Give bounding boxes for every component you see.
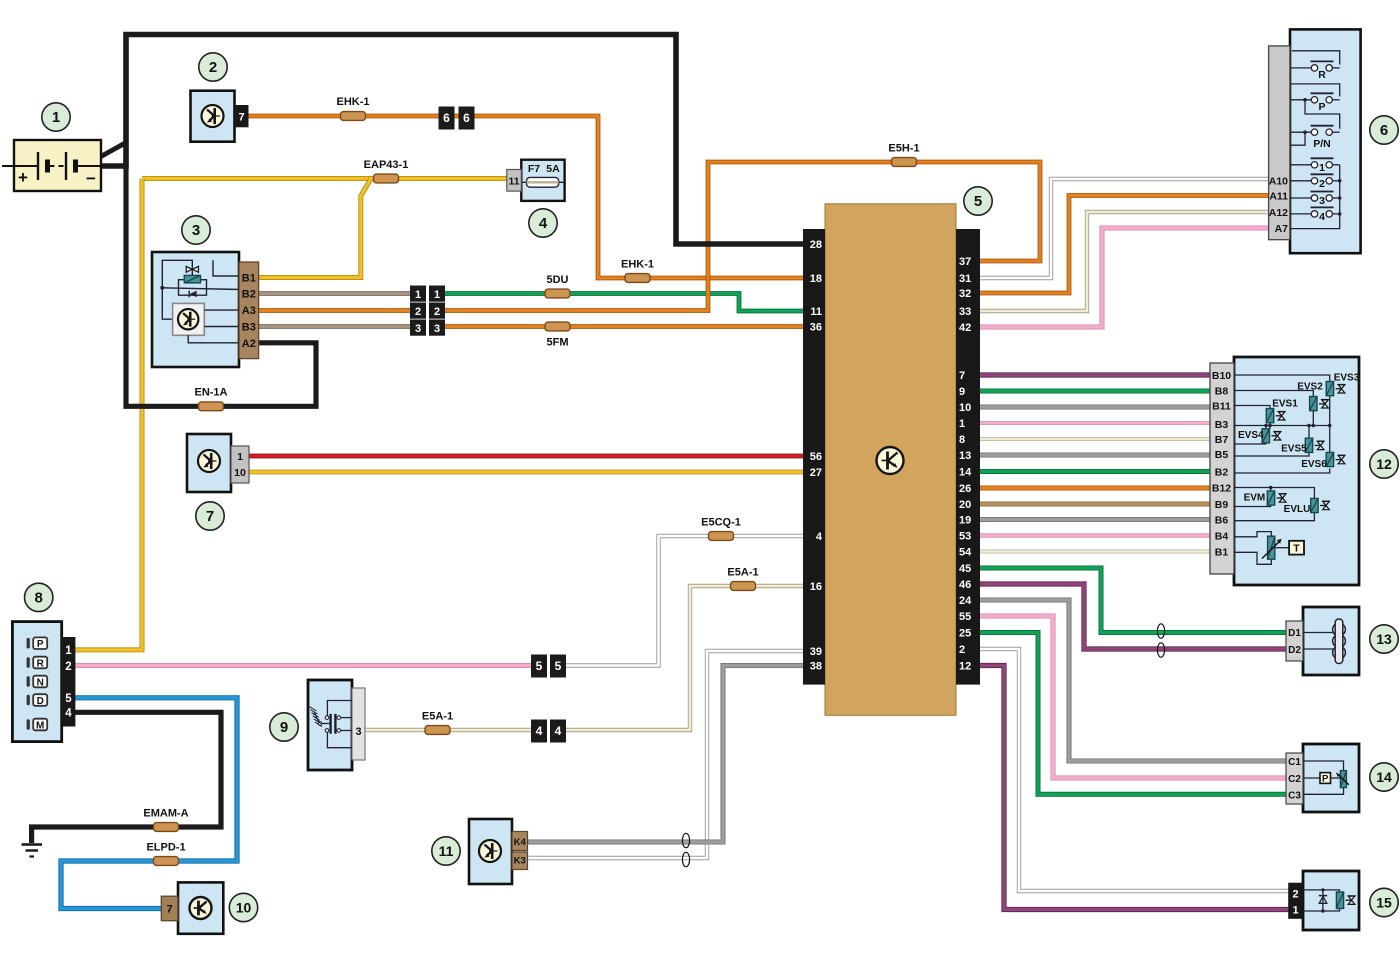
svg-text:53: 53 bbox=[959, 531, 971, 543]
svg-text:B8: B8 bbox=[1215, 386, 1229, 398]
svg-text:25: 25 bbox=[959, 628, 971, 640]
battery G1 body bbox=[14, 140, 101, 191]
svg-text:1: 1 bbox=[237, 451, 243, 463]
junction 5-5 right bbox=[550, 655, 566, 678]
label E5A-1 a bbox=[727, 567, 758, 579]
svg-text:1: 1 bbox=[52, 109, 60, 126]
svg-text:7: 7 bbox=[167, 904, 173, 916]
pressure switch 9 contact mechanism bbox=[322, 701, 353, 748]
fuse 4 element bbox=[521, 177, 564, 187]
svg-text:5A: 5A bbox=[546, 163, 560, 175]
output shaft sensor 13 body bbox=[1303, 607, 1359, 675]
svg-text:M: M bbox=[36, 721, 44, 732]
wire ELPD-1 blue selector pin5 to sensor10 bbox=[61, 698, 237, 909]
twisted pair mark near sensor 11 bbox=[682, 833, 689, 866]
svg-text:A3: A3 bbox=[242, 305, 256, 317]
svg-text:10: 10 bbox=[234, 467, 246, 479]
svg-text:11: 11 bbox=[508, 176, 519, 188]
svg-text:2: 2 bbox=[1319, 178, 1325, 190]
connector 5FM bbox=[545, 322, 570, 331]
node label 7 bbox=[196, 502, 224, 530]
solenoid EVS2 bbox=[1310, 397, 1329, 411]
svg-text:36: 36 bbox=[810, 322, 822, 334]
svg-text:1: 1 bbox=[1292, 905, 1298, 917]
svg-text:10: 10 bbox=[959, 402, 971, 414]
svg-text:4: 4 bbox=[539, 215, 548, 232]
node label 11 bbox=[432, 837, 460, 865]
relay 15 diode bbox=[1319, 888, 1327, 913]
sensor 7 symbol bbox=[198, 450, 220, 472]
svg-text:3: 3 bbox=[355, 726, 361, 738]
svg-text:15: 15 bbox=[1376, 895, 1392, 911]
wire battery diagonal bbox=[100, 142, 127, 157]
svg-text:2: 2 bbox=[434, 306, 440, 318]
svg-text:18: 18 bbox=[810, 273, 822, 285]
wire battery positive rail top bbox=[101, 35, 805, 245]
solenoid EVS3 bbox=[1326, 382, 1345, 396]
svg-text:5DU: 5DU bbox=[546, 274, 568, 286]
wire red sensor7 to ECU pin 56 bbox=[249, 454, 805, 459]
svg-text:B7: B7 bbox=[1215, 434, 1229, 446]
svg-text:−: − bbox=[86, 169, 96, 188]
connector E5A-1 a bbox=[731, 582, 756, 591]
svg-text:55: 55 bbox=[959, 611, 971, 623]
svg-text:46: 46 bbox=[959, 579, 971, 591]
solenoid unit 12 labels bbox=[1238, 373, 1360, 516]
svg-text:EN-1A: EN-1A bbox=[194, 387, 227, 399]
svg-text:13: 13 bbox=[1376, 631, 1392, 647]
svg-text:EVS1: EVS1 bbox=[1272, 399, 1298, 410]
node label 4 bbox=[529, 209, 557, 237]
actuator 3 motor leads bbox=[188, 310, 240, 343]
diag connector 10 body bbox=[178, 882, 223, 933]
thermistor in unit 12 bbox=[1262, 536, 1282, 559]
svg-text:7: 7 bbox=[206, 508, 214, 525]
label 5DU bbox=[546, 274, 568, 286]
svg-text:B12: B12 bbox=[1212, 483, 1231, 495]
wire gray ECU10 to B11 bbox=[978, 405, 1212, 410]
svg-text:5: 5 bbox=[536, 659, 543, 673]
svg-text:T: T bbox=[1293, 543, 1300, 555]
svg-text:B4: B4 bbox=[1215, 531, 1229, 543]
label 5FM bbox=[547, 337, 569, 349]
svg-text:E5A-1: E5A-1 bbox=[422, 711, 453, 723]
svg-text:24: 24 bbox=[959, 595, 972, 607]
svg-text:E5A-1: E5A-1 bbox=[727, 567, 758, 579]
svg-text:16: 16 bbox=[810, 581, 822, 593]
selector switch 6 contacts bbox=[1311, 61, 1334, 217]
wire yellow sensor7 to ECU pin 27 bbox=[249, 470, 805, 475]
svg-text:12: 12 bbox=[1376, 456, 1392, 472]
svg-text:28: 28 bbox=[810, 239, 822, 251]
solenoid unit 12 body bbox=[1234, 357, 1359, 585]
diag connector 10 pin 7 bbox=[161, 896, 178, 921]
node label 1 bbox=[42, 103, 70, 131]
svg-text:37: 37 bbox=[959, 256, 971, 268]
svg-text:1: 1 bbox=[434, 289, 440, 301]
svg-text:P/N: P/N bbox=[1313, 138, 1331, 150]
wire pink ECU53 to B4 bbox=[978, 533, 1212, 537]
svg-text:A10: A10 bbox=[1269, 176, 1288, 188]
ECU 5 left pin numbers bbox=[810, 239, 823, 673]
svg-text:6: 6 bbox=[463, 111, 470, 125]
sensor 14 internal wiring bbox=[1303, 761, 1344, 794]
svg-text:EVS6: EVS6 bbox=[1301, 459, 1327, 470]
svg-text:14: 14 bbox=[1376, 769, 1392, 785]
svg-text:EHK-1: EHK-1 bbox=[621, 259, 654, 271]
wire pink selector pin2 to junction 5 bbox=[73, 663, 533, 668]
wire pink ECU55 to C2 bbox=[978, 616, 1288, 778]
svg-text:7: 7 bbox=[959, 370, 965, 382]
label ELPD-1 bbox=[146, 842, 185, 854]
wire 5DU green junction to ECU pin 11 bbox=[443, 294, 805, 312]
svg-text:R: R bbox=[37, 659, 45, 670]
node label 5 bbox=[964, 187, 992, 215]
diag connector 10 K symbol bbox=[190, 897, 212, 919]
svg-text:E5CQ-1: E5CQ-1 bbox=[701, 517, 741, 529]
selector switch 6 junction dots bbox=[1303, 98, 1341, 216]
sensor 13 connector strip bbox=[1286, 621, 1303, 661]
wire purple ECU46 to D2 bbox=[978, 584, 1288, 649]
svg-text:1: 1 bbox=[1319, 162, 1325, 174]
battery G1 symbol bbox=[2, 152, 101, 188]
wire white ECU2 to relay pin2 bbox=[978, 649, 1290, 891]
svg-text:13: 13 bbox=[959, 450, 971, 462]
pressure switch 9 spring hatch bbox=[309, 707, 322, 727]
svg-text:E5H-1: E5H-1 bbox=[888, 143, 919, 155]
wire cream ECU54 to B1 bbox=[978, 550, 1212, 554]
wire B3 taupe to junction bbox=[256, 324, 412, 329]
label E5H-1 bbox=[888, 143, 919, 155]
svg-text:5: 5 bbox=[65, 693, 72, 705]
label EN-1A bbox=[194, 387, 227, 399]
svg-text:2: 2 bbox=[415, 306, 421, 318]
svg-text:B5: B5 bbox=[1215, 449, 1229, 461]
svg-text:45: 45 bbox=[959, 563, 971, 575]
label E5A-1 b bbox=[422, 711, 453, 723]
label EAP43-1 bbox=[364, 159, 409, 171]
connector E5A-1 b bbox=[425, 726, 450, 735]
svg-text:P: P bbox=[1318, 101, 1325, 113]
solenoid unit 12 junction dots bbox=[1264, 424, 1331, 490]
svg-text:C1: C1 bbox=[1288, 757, 1301, 768]
svg-text:9: 9 bbox=[280, 719, 288, 736]
sensor 14 element bbox=[1336, 771, 1349, 788]
sensor 7 pins 1 and 10 bbox=[231, 446, 249, 483]
speed sensor 11 pins K4 K3 bbox=[512, 832, 528, 870]
svg-text:1: 1 bbox=[415, 289, 421, 301]
selector indicator 8 position symbols P R N D M bbox=[27, 637, 48, 731]
solenoid EVLU bbox=[1311, 498, 1330, 512]
wire purple ECU12 to relay pin1 bbox=[978, 666, 1290, 910]
svg-text:6: 6 bbox=[1380, 122, 1388, 139]
wire B2 taupe to junction bbox=[256, 291, 412, 296]
svg-text:B3: B3 bbox=[242, 322, 256, 334]
node label 6 bbox=[1370, 116, 1398, 144]
wire E5A-1 cream switch9 to junction 4 bbox=[364, 728, 533, 732]
svg-text:EAP43-1: EAP43-1 bbox=[364, 159, 409, 171]
svg-text:K3: K3 bbox=[514, 856, 526, 867]
relay 15 solenoid bbox=[1336, 892, 1355, 909]
node label 14 bbox=[1370, 763, 1398, 791]
svg-text:5: 5 bbox=[974, 193, 982, 210]
svg-text:56: 56 bbox=[810, 451, 822, 463]
svg-text:F7: F7 bbox=[528, 163, 540, 175]
svg-text:3: 3 bbox=[415, 323, 421, 335]
sensor 7 body bbox=[187, 434, 231, 492]
pressure switch 9 body bbox=[308, 680, 352, 770]
actuator 3 motor box bbox=[173, 303, 205, 335]
svg-text:+: + bbox=[18, 168, 28, 187]
svg-text:32: 32 bbox=[959, 288, 971, 300]
wire tan ECU20 to B9 bbox=[978, 502, 1212, 507]
wire purple ECU7 to B10 bbox=[978, 372, 1212, 377]
wire cream ECU8 to B7 bbox=[978, 437, 1212, 441]
svg-text:K4: K4 bbox=[514, 837, 527, 848]
svg-text:11: 11 bbox=[439, 843, 454, 859]
solenoid EVS4 bbox=[1262, 429, 1281, 443]
svg-text:2: 2 bbox=[65, 661, 71, 673]
wire orange ECU32 to A11 bbox=[978, 196, 1270, 294]
svg-text:20: 20 bbox=[959, 499, 971, 511]
svg-text:9: 9 bbox=[959, 386, 965, 398]
svg-text:ELPD-1: ELPD-1 bbox=[146, 842, 185, 854]
selector switch 6 connector strip bbox=[1269, 46, 1290, 240]
wire gray K4 to ECU pin 38 bbox=[526, 666, 805, 843]
svg-text:6: 6 bbox=[443, 111, 450, 125]
node label 10 bbox=[229, 893, 257, 921]
selector indicator 8 pin column bbox=[62, 637, 76, 727]
svg-text:1: 1 bbox=[65, 645, 72, 657]
svg-text:A2: A2 bbox=[242, 338, 256, 350]
solenoid unit 12 internal wiring bbox=[1234, 375, 1330, 564]
svg-text:B1: B1 bbox=[242, 273, 256, 285]
wire green ECU14 to B2 bbox=[978, 469, 1212, 474]
solenoid EVM bbox=[1267, 491, 1286, 505]
temperature sensor T box bbox=[1289, 541, 1304, 555]
fuse 4 body bbox=[521, 160, 564, 201]
wire E5CQ-1 white junction5 to ECU pin 4 bbox=[564, 536, 805, 666]
svg-text:D2: D2 bbox=[1288, 645, 1301, 656]
svg-text:4: 4 bbox=[816, 531, 823, 543]
junction 4-4 left bbox=[531, 720, 547, 743]
wire gray ECU24 to C1 bbox=[978, 600, 1288, 761]
label EHK-1 a bbox=[336, 96, 369, 108]
actuator 3 body bbox=[152, 252, 239, 367]
svg-text:B2: B2 bbox=[1215, 467, 1229, 479]
svg-text:19: 19 bbox=[959, 515, 971, 527]
svg-text:4: 4 bbox=[555, 724, 562, 738]
solenoid unit 12 connector strip bbox=[1210, 363, 1234, 574]
svg-text:8: 8 bbox=[959, 434, 965, 446]
fuse 4 labels F7 5A bbox=[528, 163, 560, 175]
ECU 5 body bbox=[825, 204, 956, 716]
node label 3 bbox=[182, 216, 210, 244]
svg-text:EVS2: EVS2 bbox=[1297, 382, 1323, 393]
wire gray ECU13 to B5 bbox=[978, 453, 1212, 458]
wire pink ECU42 to A7 bbox=[978, 228, 1270, 327]
svg-text:P: P bbox=[1322, 774, 1329, 785]
actuator 3 pin strip B1 B2 A3 B3 A2 bbox=[239, 262, 259, 359]
node label 12 bbox=[1370, 450, 1398, 478]
svg-text:14: 14 bbox=[959, 467, 972, 479]
sensor 14 P box bbox=[1320, 773, 1331, 785]
wire white K3 to ECU pin 39 bbox=[526, 651, 805, 858]
svg-text:B9: B9 bbox=[1215, 499, 1229, 511]
svg-text:N: N bbox=[37, 678, 44, 689]
svg-text:D1: D1 bbox=[1288, 628, 1301, 639]
svg-text:EVS4: EVS4 bbox=[1238, 430, 1264, 441]
speed sensor 11 body bbox=[469, 819, 512, 884]
svg-text:EVS5: EVS5 bbox=[1281, 444, 1307, 455]
label EHK-1 b bbox=[621, 259, 654, 271]
svg-text:3: 3 bbox=[192, 222, 200, 239]
svg-text:EVLU: EVLU bbox=[1284, 504, 1311, 515]
svg-text:4: 4 bbox=[1319, 211, 1325, 223]
svg-text:12: 12 bbox=[959, 661, 971, 673]
svg-text:A7: A7 bbox=[1275, 223, 1289, 235]
connector ELPD-1 bbox=[154, 857, 179, 866]
ECU 5 right pin column bbox=[956, 229, 980, 685]
svg-text:C3: C3 bbox=[1288, 791, 1301, 802]
sensor 2 body bbox=[191, 91, 235, 142]
svg-text:D: D bbox=[37, 696, 44, 707]
svg-text:33: 33 bbox=[959, 306, 971, 318]
svg-text:B3: B3 bbox=[1215, 419, 1229, 431]
svg-text:10: 10 bbox=[236, 900, 252, 916]
wire yellow branch to G3 pin B1 bbox=[256, 179, 371, 278]
svg-text:P: P bbox=[37, 639, 44, 650]
connector EHK-1 a bbox=[341, 112, 366, 121]
relay 15 pin strip bbox=[1288, 883, 1303, 919]
wire green ECU45 to D1 bbox=[978, 568, 1288, 633]
svg-text:EVS3: EVS3 bbox=[1334, 373, 1360, 384]
svg-text:A12: A12 bbox=[1269, 207, 1288, 219]
label E5CQ-1 bbox=[701, 517, 741, 529]
selector switch 6 body bbox=[1290, 29, 1361, 253]
wire pink ECU1 to B3 bbox=[978, 421, 1212, 425]
pressure switch 9 contact circles bbox=[318, 716, 340, 733]
connector E5H-1 bbox=[892, 158, 917, 167]
connector EHK-1 b bbox=[625, 274, 650, 283]
svg-text:5FM: 5FM bbox=[547, 337, 569, 349]
ECU 5 left pin column bbox=[803, 229, 825, 685]
wire white ECU31 to A10 bbox=[978, 179, 1270, 278]
wire yellow down to selector pin 1 bbox=[73, 179, 142, 650]
selector switch 6 position labels bbox=[1313, 69, 1331, 223]
svg-text:4: 4 bbox=[536, 724, 543, 738]
svg-text:EMAM-A: EMAM-A bbox=[143, 808, 188, 820]
actuator 3 junction dot bbox=[160, 286, 164, 290]
junction 6-6 right bbox=[459, 107, 475, 130]
node label 2 bbox=[199, 53, 227, 81]
svg-text:54: 54 bbox=[959, 547, 972, 559]
svg-text:27: 27 bbox=[810, 467, 822, 479]
actuator 3 internal wiring bbox=[162, 260, 240, 319]
node label 13 bbox=[1370, 625, 1398, 653]
actuator 3 valve symbol bbox=[186, 265, 198, 274]
node label 15 bbox=[1370, 888, 1398, 916]
junction 4-4 right bbox=[550, 720, 566, 743]
svg-text:39: 39 bbox=[810, 646, 822, 658]
lockup relay 15 body bbox=[1303, 871, 1359, 930]
selector switch 6 internal wiring bbox=[1290, 51, 1340, 229]
wire EMAM-A black selector pin4 to ground bbox=[32, 712, 221, 843]
svg-text:EVM: EVM bbox=[1244, 493, 1266, 504]
label EMAM-A bbox=[143, 808, 188, 820]
svg-text:5: 5 bbox=[555, 659, 562, 673]
svg-text:C2: C2 bbox=[1288, 774, 1301, 785]
svg-text:B6: B6 bbox=[1215, 515, 1229, 527]
pressure switch 9 contact bars bbox=[329, 714, 336, 734]
node label 8 bbox=[25, 583, 53, 611]
ECU 5 K-line symbol bbox=[877, 447, 904, 474]
wire orange ECU26 to B12 bbox=[978, 486, 1212, 491]
node label 9 bbox=[270, 713, 298, 741]
speed sensor 11 symbol bbox=[479, 840, 501, 862]
svg-text:B10: B10 bbox=[1212, 370, 1231, 382]
svg-text:2: 2 bbox=[959, 644, 965, 656]
sensor 14 connector strip bbox=[1286, 753, 1303, 804]
junction block 1-2-3 bbox=[410, 286, 445, 336]
actuator 3 solenoid coil bbox=[184, 275, 200, 283]
svg-text:26: 26 bbox=[959, 483, 971, 495]
svg-text:1: 1 bbox=[959, 418, 965, 430]
svg-text:B2: B2 bbox=[242, 289, 256, 301]
pressure sensor 14 body bbox=[1303, 744, 1359, 812]
svg-text:7: 7 bbox=[238, 112, 244, 124]
connector EAP43-1 bbox=[374, 174, 399, 183]
connector EN-1A bbox=[199, 402, 224, 411]
wire E5A-1 cream junction4 to ECU pin 16 bbox=[564, 586, 805, 730]
sensor 2 symbol bbox=[202, 105, 224, 127]
svg-text:4: 4 bbox=[65, 708, 72, 720]
sensor 13 coil bbox=[1303, 619, 1345, 664]
svg-text:A11: A11 bbox=[1269, 191, 1288, 203]
wire cream ECU33 to A12 bbox=[978, 212, 1270, 311]
wire EAP43-1 yellow battery to fuse bbox=[142, 176, 507, 181]
wire EHK-1 orange sensor2 to ECU pin 18 bbox=[247, 116, 805, 278]
twisted pair mark near sensor 13 bbox=[1157, 624, 1164, 657]
svg-text:B11: B11 bbox=[1212, 401, 1231, 413]
wire EN-1A black A2 loop bbox=[126, 160, 316, 406]
fuse 4 pin 11 bbox=[507, 170, 522, 192]
wire A3 orange to junction bbox=[256, 308, 412, 313]
svg-text:3: 3 bbox=[434, 323, 440, 335]
wire 5FM orange junction to ECU pin 36 bbox=[443, 324, 805, 329]
svg-text:2: 2 bbox=[1292, 888, 1298, 900]
connector E5CQ-1 bbox=[709, 532, 734, 541]
solenoid EVS5 bbox=[1305, 438, 1324, 452]
svg-text:8: 8 bbox=[35, 589, 43, 606]
ECU 5 right pin numbers bbox=[959, 256, 972, 673]
svg-text:31: 31 bbox=[959, 273, 971, 285]
connector EMAM-A bbox=[154, 823, 179, 832]
ground symbol bbox=[22, 845, 43, 857]
actuator 3 diode bbox=[189, 291, 196, 298]
wire E5H-1 orange junction to ECU pin 37 bbox=[443, 162, 1040, 311]
junction 6-6 left bbox=[439, 107, 455, 130]
solenoid EVS6 bbox=[1326, 452, 1345, 466]
svg-text:EHK-1: EHK-1 bbox=[336, 96, 369, 108]
svg-text:3: 3 bbox=[1319, 195, 1325, 207]
connector 5DU bbox=[545, 289, 570, 298]
solenoid EVS1 bbox=[1266, 409, 1285, 423]
svg-text:R: R bbox=[1318, 69, 1326, 81]
wire gray ECU19 to B6 bbox=[978, 517, 1212, 522]
selector indicator 8 body bbox=[12, 622, 61, 742]
junction 5-5 left bbox=[531, 655, 547, 678]
